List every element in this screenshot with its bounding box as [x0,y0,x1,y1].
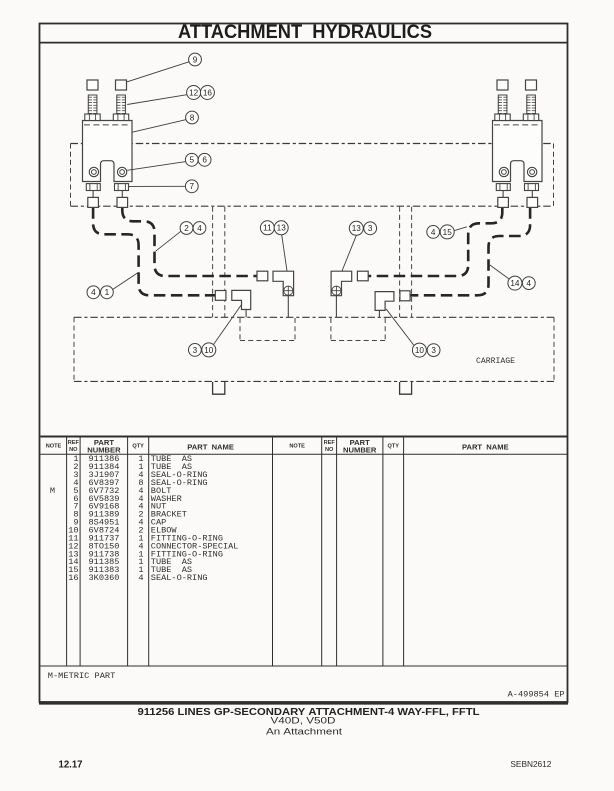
svg-text:NOTE: NOTE [289,444,305,450]
svg-text:14: 14 [510,279,520,288]
svg-text:12.17: 12.17 [59,759,83,770]
svg-text:8: 8 [190,113,195,122]
svg-text:M-METRIC PART: M-METRIC PART [48,673,116,681]
svg-text:1: 1 [105,288,110,297]
svg-text:11: 11 [263,224,272,233]
svg-text:3K0360: 3K0360 [89,573,120,583]
svg-text:QTY: QTY [387,444,399,450]
svg-text:NUMBER: NUMBER [343,446,377,455]
svg-text:13: 13 [277,224,287,233]
svg-text:13: 13 [352,224,362,233]
svg-text:SEAL-O-RING: SEAL-O-RING [151,573,208,583]
svg-text:16: 16 [68,573,78,583]
svg-text:NO: NO [69,447,78,453]
svg-text:10: 10 [204,346,214,355]
svg-text:6: 6 [202,156,207,165]
svg-text:An Attachment: An Attachment [266,726,343,736]
svg-text:15: 15 [443,228,453,237]
svg-text:M: M [50,486,55,496]
svg-text:CARRIAGE: CARRIAGE [476,357,515,366]
svg-text:3: 3 [368,224,373,233]
svg-text:4: 4 [138,573,143,583]
svg-text:10: 10 [415,346,425,355]
svg-text:5: 5 [190,156,195,165]
svg-text:16: 16 [203,88,213,97]
svg-text:NOTE: NOTE [46,444,62,450]
svg-text:3: 3 [193,346,198,355]
svg-text:4: 4 [91,288,96,297]
svg-text:PART NAME: PART NAME [187,442,234,451]
svg-text:12: 12 [189,88,199,97]
svg-text:SEBN2612: SEBN2612 [510,760,552,769]
svg-text:4: 4 [527,279,532,288]
svg-text:A-499854 EP: A-499854 EP [508,691,565,699]
svg-text:NO: NO [325,447,334,453]
svg-text:REF: REF [68,440,80,446]
svg-text:QTY: QTY [132,444,144,450]
svg-text:4: 4 [197,224,202,233]
svg-text:REF: REF [324,440,336,446]
svg-text:2: 2 [184,224,189,233]
svg-text:4: 4 [431,228,436,237]
svg-text:7: 7 [190,182,195,191]
svg-text:V40D, V50D: V40D, V50D [271,716,336,726]
svg-text:PART NAME: PART NAME [462,442,509,451]
svg-text:3: 3 [431,346,436,355]
svg-text:ATTACHMENT HYDRAULICS: ATTACHMENT HYDRAULICS [178,22,432,43]
svg-text:9: 9 [193,55,198,64]
